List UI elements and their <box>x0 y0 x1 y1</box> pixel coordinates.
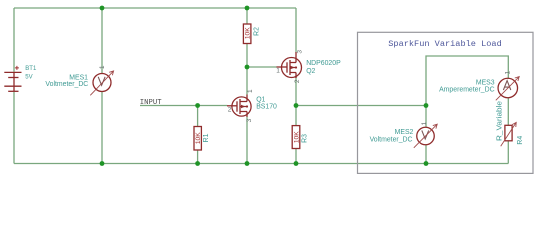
svg-text:3: 3 <box>296 50 303 54</box>
junction bottom rail / MES1 <box>100 161 105 166</box>
svg-text:2: 2 <box>228 106 232 113</box>
label R1 <box>203 133 210 142</box>
label Voltmeter_DC (MES2) <box>370 136 413 143</box>
svg-text:10K: 10K <box>195 132 202 144</box>
voltmeter MES2 <box>414 121 437 147</box>
wire Q2 source bottom <box>295 76 297 105</box>
pin 2 (Q1 gate) <box>228 106 232 113</box>
svg-text:10K: 10K <box>293 131 300 143</box>
wire R2 bottom to node <box>246 44 248 68</box>
svg-text:SparkFun Variable Load: SparkFun Variable Load <box>388 39 501 49</box>
junction top rail / MES1 <box>100 6 105 11</box>
wire Q1 source to bottom rail <box>246 117 248 164</box>
svg-text:R3: R3 <box>302 134 309 143</box>
wire R2 top <box>246 8 248 24</box>
label NDP6020P <box>306 60 341 67</box>
label BS170 <box>256 103 277 110</box>
junction INPUT / R1 <box>195 103 200 108</box>
label R3 <box>302 134 309 143</box>
wire top rail <box>14 7 296 9</box>
frame SparkFun Variable Load box <box>358 32 534 173</box>
svg-text:1: 1 <box>247 89 254 93</box>
wire R4 bottom <box>507 141 509 164</box>
svg-text:NDP6020P: NDP6020P <box>306 60 341 67</box>
node INPUT <box>140 99 162 107</box>
svg-text:10K: 10K <box>245 27 252 39</box>
battery BT1 <box>4 66 21 91</box>
pin 2 (Q2 source bottom) <box>294 79 301 83</box>
resistor R1 <box>194 127 202 151</box>
label Voltmeter_DC (MES1) <box>45 81 88 88</box>
wire left rail upper (to battery) <box>13 8 15 72</box>
junction Q2 source / R3 <box>294 103 299 108</box>
svg-text:R4: R4 <box>517 136 524 145</box>
transistor Q2 <box>277 52 302 78</box>
junction bottom rail / Q1 source <box>245 161 250 166</box>
svg-text:5V: 5V <box>25 74 32 80</box>
pin 3 (Q1 source) <box>246 118 253 122</box>
label MES1 <box>69 74 88 81</box>
wire MES2 node up and over to MES3 <box>426 56 508 106</box>
svg-text:R1: R1 <box>203 133 210 142</box>
wire R1 top <box>197 106 199 127</box>
svg-text:R2: R2 <box>253 27 260 36</box>
wire R3 top <box>295 106 297 126</box>
label R_Variable <box>497 101 504 141</box>
pin 1 (Q2 gate) <box>276 68 280 75</box>
svg-text:Q2: Q2 <box>306 68 315 75</box>
label Amperemeter_DC <box>439 87 495 94</box>
svg-text:1: 1 <box>276 68 280 75</box>
resistor R3 <box>292 126 300 149</box>
wire INPUT net <box>140 105 227 107</box>
wire node to Q1 drain <box>246 67 248 95</box>
svg-text:Voltmeter_DC: Voltmeter_DC <box>370 136 413 143</box>
junction bottom rail / R3 <box>294 161 299 166</box>
svg-text:R_Variable: R_Variable <box>497 101 504 141</box>
wire MES1 top <box>101 8 103 74</box>
svg-text:1: 1 <box>421 121 428 125</box>
svg-text:BS170: BS170 <box>256 103 277 110</box>
svg-text:MES3: MES3 <box>476 79 495 86</box>
amperemeter MES3 <box>496 71 519 101</box>
label R2 <box>253 27 260 36</box>
wire R3 bottom <box>295 149 297 164</box>
wire Q2 drain top <box>295 8 297 53</box>
voltmeter MES1 <box>90 65 113 95</box>
svg-text:1: 1 <box>505 71 512 75</box>
junction top rail / R2 <box>245 6 250 11</box>
label R4 <box>517 136 524 145</box>
wire R1 bottom <box>197 150 199 164</box>
junction R2 / Q1 drain / Q2 gate <box>245 65 250 70</box>
svg-text:2: 2 <box>294 79 301 83</box>
svg-text:Voltmeter_DC: Voltmeter_DC <box>45 81 88 88</box>
label Q2 <box>306 68 315 75</box>
junction MES2 / MES3 branch <box>424 103 429 108</box>
wire MES2 top <box>425 106 427 128</box>
wire MES2 bottom <box>425 145 427 164</box>
junction bottom rail / R1 <box>195 161 200 166</box>
wire left rail lower (battery to bottom rail) <box>13 92 15 164</box>
wire bottom rail <box>14 163 508 165</box>
svg-text:BT1: BT1 <box>25 66 37 72</box>
label 5V <box>25 74 32 80</box>
resistor R4 (variable) <box>501 122 517 146</box>
label Q1 <box>256 96 265 103</box>
svg-text:MES2: MES2 <box>395 129 414 136</box>
svg-text:1: 1 <box>99 65 106 69</box>
label MES2 <box>395 129 414 136</box>
wire node to Q2 gate <box>247 66 277 68</box>
label BT1 <box>25 66 37 72</box>
pin 3 (Q2 drain top) <box>296 50 303 54</box>
wire Q2 node to MES2 node <box>296 105 426 107</box>
label SparkFun Variable Load <box>388 39 501 49</box>
svg-text:Amperemeter_DC: Amperemeter_DC <box>439 87 495 94</box>
transistor Q1 <box>227 89 254 117</box>
svg-text:INPUT: INPUT <box>140 99 162 107</box>
svg-text:3: 3 <box>246 118 253 122</box>
label MES3 <box>476 79 495 86</box>
wire MES1 bottom <box>101 91 103 163</box>
wire MES3 bottom to R4 <box>507 98 509 126</box>
junction bottom rail / MES2 <box>424 161 429 166</box>
svg-text:Q1: Q1 <box>256 96 265 103</box>
resistor R2 <box>243 24 251 44</box>
